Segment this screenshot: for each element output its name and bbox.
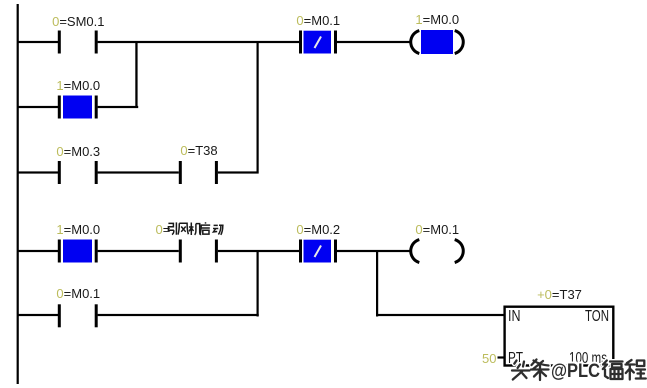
svg-text:1=M0.0: 1=M0.0: [56, 222, 100, 237]
NC contact M0.1 left bar: [299, 31, 302, 54]
label fan-start CJK ji: [189, 223, 201, 236]
network2 contact M0.1 left bar: [58, 304, 61, 327]
svg-text:0=M0.3: 0=M0.3: [56, 144, 100, 159]
label fan-start CJK yin: [168, 222, 176, 234]
timer PT input tick: [498, 356, 504, 358]
svg-text:IN: IN: [508, 308, 521, 325]
wire network2 NC contact M0.2 to coil M0.1: [337, 250, 411, 252]
wire network1 branch3 rail to contact M0.3: [17, 171, 59, 173]
network2 contact M0.0 right bar: [95, 240, 98, 263]
wire rung1 NC contact M0.1 to coil M0.0: [337, 41, 411, 43]
svg-text:0=M0.1: 0=M0.1: [296, 13, 340, 28]
svg-text:0=T38: 0=T38: [180, 143, 217, 158]
label fan-start CJK feng: [178, 223, 188, 234]
label fan-start CJK dong: [213, 225, 224, 235]
coil M0.1 right arc: [455, 240, 464, 263]
watermark dark strokes: [512, 360, 646, 381]
timer T37 box: [505, 307, 614, 366]
wire rung1 contact SM0.1 to NC contact M0.1: [98, 41, 299, 43]
NC contact M0.2 left bar: [299, 240, 302, 263]
NC contact M0.2 slash: [315, 246, 322, 258]
label fan-start CJK qi: [200, 222, 210, 235]
wire network1 rung1 rail to contact SM0.1: [17, 41, 59, 43]
junction riser branch2 to rung1: [135, 41, 137, 108]
NC contact M0.1 slash: [315, 37, 322, 49]
svg-text:0=M0.1: 0=M0.1: [56, 286, 100, 301]
contact M0.3 right bar: [95, 161, 98, 184]
wire timer branch to timer box IN: [376, 314, 505, 316]
network2 contact M0.0 power box: [63, 240, 92, 263]
svg-text:+0=T37: +0=T37: [537, 287, 582, 302]
NC contact M0.2 power box: [304, 240, 332, 263]
svg-text:0=SM0.1: 0=SM0.1: [52, 14, 104, 29]
contact M0.0 left bar: [58, 96, 61, 119]
svg-text:0=M0.1: 0=M0.1: [415, 222, 459, 237]
contact M0.3 left bar: [58, 161, 61, 184]
svg-text:50: 50: [482, 351, 496, 366]
NC contact M0.2 right bar: [334, 240, 337, 263]
network2 contact M0.0 left bar: [58, 240, 61, 263]
junction riser network2 branch to rung: [257, 250, 259, 317]
watermark casing: [512, 360, 646, 381]
contact SM0.1 left bar: [58, 31, 61, 54]
contact fan-start right bar: [215, 240, 218, 263]
left power rail: [17, 4, 19, 384]
network2 contact M0.1 right bar: [95, 304, 98, 327]
contact M0.0 power box: [63, 96, 92, 119]
coil M0.1 left arc: [411, 240, 420, 263]
svg-text:1=M0.0: 1=M0.0: [415, 12, 459, 27]
contact SM0.1 right bar: [95, 31, 98, 54]
junction riser timer branch: [376, 250, 378, 317]
wire branch2 contact M0.0 to junction: [98, 106, 139, 108]
coil M0.0 right arc: [455, 31, 464, 54]
contact fan-start left bar: [179, 240, 182, 263]
wire network2 branch contact M0.1 to junction: [98, 314, 259, 316]
NC contact M0.1 right bar: [334, 31, 337, 54]
wire network2 rung rail to contact M0.0: [17, 250, 59, 252]
svg-text:@PLC: @PLC: [551, 361, 600, 382]
wire network2 branch rail to contact M0.1: [17, 314, 59, 316]
contact T38 right bar: [215, 161, 218, 184]
junction riser branch3 to rung1: [257, 41, 259, 174]
wire network2 fan-start contact to NC contact M0.2: [218, 250, 299, 252]
svg-text:TON: TON: [585, 308, 609, 325]
coil M0.0 left arc: [411, 31, 420, 54]
svg-text:0=M0.2: 0=M0.2: [296, 222, 340, 237]
wire branch3 contact T38 to junction: [218, 171, 259, 173]
NC contact M0.1 power box: [304, 31, 332, 54]
contact T38 left bar: [179, 161, 182, 184]
wire network1 branch2 rail to contact M0.0: [17, 106, 59, 108]
svg-text:1=M0.0: 1=M0.0: [56, 78, 100, 93]
wire network2 contact M0.0 to fan-start contact: [98, 250, 179, 252]
wire branch3 contact M0.3 to contact T38: [98, 171, 179, 173]
contact M0.0 right bar: [95, 96, 98, 119]
coil M0.0 power box: [421, 30, 453, 54]
